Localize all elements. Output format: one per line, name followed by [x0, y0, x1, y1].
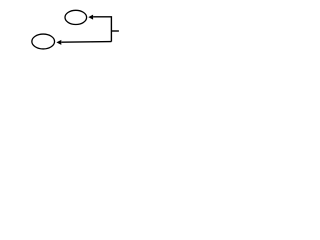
wire bottom horizontal	[61, 41, 111, 44]
stub tick on wire	[111, 30, 119, 32]
arrowhead into top ellipse	[88, 15, 93, 20]
wire elbow into top ellipse	[93, 17, 111, 42]
node ellipse top	[65, 10, 87, 24]
arrowhead into bottom ellipse	[56, 40, 61, 45]
node ellipse bottom	[32, 34, 55, 49]
